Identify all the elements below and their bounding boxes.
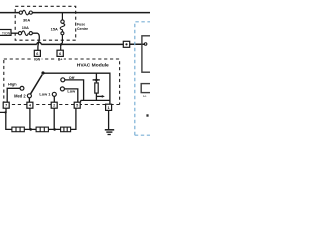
transistor base bar bbox=[93, 79, 100, 80]
wire connector3 to ground bbox=[108, 110, 110, 129]
svg-text:6: 6 bbox=[36, 52, 38, 56]
wire connector7 down to resistor rail bbox=[0, 108, 12, 129]
wire connector5 down bbox=[71, 108, 76, 129]
resistor R1 bbox=[12, 127, 24, 132]
wire High to connector 7 bbox=[7, 88, 20, 102]
svg-text:Fuse: Fuse bbox=[77, 22, 85, 26]
power module transistor drop bbox=[95, 73, 97, 79]
terminal circle in relay bbox=[144, 43, 147, 46]
resistor rail bbox=[24, 128, 60, 130]
resistor vertical bbox=[95, 83, 98, 93]
wire hot feed y44 with hop bbox=[0, 42, 144, 44]
fuse F3 15A vertical bbox=[60, 13, 65, 51]
fuse F1 30A bbox=[19, 10, 32, 15]
ground bbox=[105, 130, 114, 135]
svg-text:High: High bbox=[8, 82, 17, 87]
svg-text:5: 5 bbox=[76, 104, 78, 108]
svg-text:Lo: Lo bbox=[143, 94, 147, 98]
resistor R2 bbox=[36, 127, 48, 132]
junction dot B+ tap bbox=[60, 43, 62, 45]
fuse centre dashed box bbox=[15, 6, 75, 40]
connector 5 bbox=[74, 102, 80, 108]
diode triangle bbox=[95, 81, 97, 83]
blue dashed box relay centre bbox=[135, 22, 150, 135]
svg-text:Off: Off bbox=[69, 75, 75, 80]
svg-text:30A: 30A bbox=[23, 18, 30, 23]
connector 7 bbox=[3, 102, 9, 108]
wire battery feed top bbox=[0, 12, 150, 14]
wire connector4 down bbox=[29, 108, 31, 129]
wire fuse 10A to IGN connector bbox=[32, 33, 39, 50]
svg-text:Med 2: Med 2 bbox=[14, 93, 26, 98]
small mark right bbox=[146, 114, 148, 116]
connector 6 IGN bbox=[34, 50, 40, 56]
wire Low1 to connector 2 bbox=[53, 96, 55, 102]
wire resistor to bottom rail bbox=[95, 93, 97, 100]
svg-text:Centre: Centre bbox=[77, 27, 88, 31]
emitter arrow bbox=[96, 95, 102, 97]
switch pivot junction bbox=[41, 71, 44, 74]
svg-text:B+: B+ bbox=[58, 58, 63, 62]
wire pivot rail to module bbox=[43, 73, 110, 104]
svg-text:TION: TION bbox=[2, 31, 11, 35]
wire Low to connector 5 bbox=[64, 89, 77, 102]
svg-text:7: 7 bbox=[5, 104, 7, 108]
svg-text:15A: 15A bbox=[51, 26, 58, 31]
fuse F2 10A bbox=[18, 31, 32, 36]
svg-text:1: 1 bbox=[108, 106, 110, 110]
ignition switch box bbox=[0, 30, 11, 36]
svg-text:Low 1: Low 1 bbox=[39, 92, 51, 97]
relay box right top bbox=[142, 36, 154, 72]
connector 6 B+ bbox=[57, 50, 63, 56]
contact Low bbox=[60, 87, 64, 91]
resistor R3 bbox=[61, 127, 71, 132]
box right lower bbox=[141, 84, 153, 93]
connector 3 bbox=[106, 104, 112, 110]
wire ignition to fuse bbox=[11, 32, 18, 34]
svg-text:10A: 10A bbox=[22, 25, 29, 30]
HVAC module dashed box bbox=[3, 59, 119, 105]
switch wiper arm bbox=[31, 75, 43, 94]
svg-text:IGN: IGN bbox=[34, 58, 41, 62]
connector 4 bbox=[27, 102, 33, 108]
wire Med2 to connector 4 bbox=[28, 98, 30, 102]
connector 2 bbox=[51, 102, 57, 108]
junction dots rail bbox=[29, 128, 32, 131]
wire Off to bottom rail bbox=[65, 80, 84, 101]
svg-text:6: 6 bbox=[59, 52, 61, 56]
splice box with dot bbox=[123, 41, 129, 47]
svg-text:HVAC Module: HVAC Module bbox=[77, 62, 109, 68]
module bottom rail bbox=[81, 100, 110, 102]
wire connector2 down bbox=[53, 108, 55, 129]
svg-text:2: 2 bbox=[53, 104, 55, 108]
junction dot left exit bbox=[4, 111, 6, 113]
